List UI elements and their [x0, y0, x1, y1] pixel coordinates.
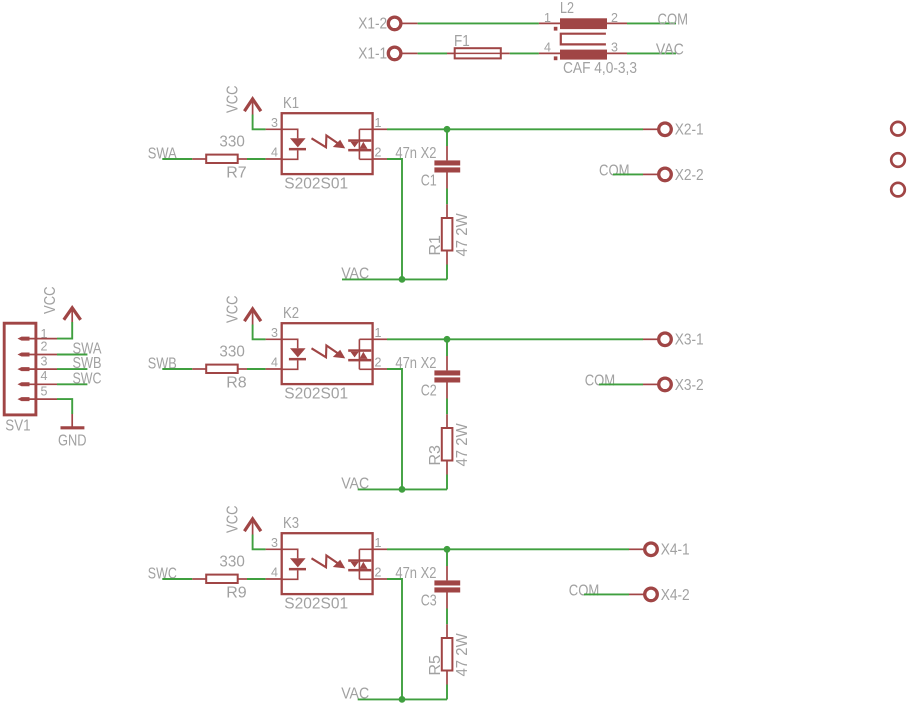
svg-text:4: 4	[41, 369, 48, 383]
SV1 pin 4	[18, 369, 58, 386]
svg-text:2: 2	[375, 566, 382, 580]
svg-text:3: 3	[611, 41, 618, 55]
mounting pad hole 3 (right edge)	[891, 183, 905, 197]
svg-text:VAC: VAC	[341, 686, 369, 703]
net VAC wire (K2 block)	[358, 488, 447, 490]
svg-text:R5: R5	[427, 655, 444, 676]
svg-text:R8: R8	[226, 375, 247, 392]
wire SV1 pin2 net SWA	[57, 354, 87, 356]
svg-text:SWC: SWC	[73, 370, 102, 387]
svg-text:COM: COM	[658, 12, 689, 29]
wire COM to X3-2	[599, 383, 643, 385]
pad X1-2	[358, 16, 417, 33]
svg-text:S202S01: S202S01	[284, 385, 348, 402]
svg-text:VCC: VCC	[224, 86, 241, 114]
junction on VAC	[399, 276, 406, 283]
wire X1-2 to L2 pin1	[418, 22, 539, 24]
svg-text:VCC: VCC	[224, 296, 241, 324]
wire C1 to R1	[446, 189, 448, 205]
capacitor C3 47n X2	[395, 565, 460, 609]
wire F1 to L2 pin4	[510, 52, 539, 54]
net VAC wire (K1 block)	[342, 278, 447, 280]
junction on VAC	[399, 486, 406, 493]
wire SV1 pin3 net SWB	[57, 368, 87, 370]
wire VCC to K2 pin3	[253, 325, 266, 340]
svg-text:330: 330	[219, 344, 244, 361]
svg-text:47 2W: 47 2W	[454, 212, 471, 256]
supply VCC (K1)	[224, 86, 261, 115]
svg-text:47n X2: 47n X2	[395, 565, 436, 582]
svg-text:L2: L2	[560, 0, 574, 17]
resistor R1 47 2W	[427, 204, 471, 264]
svg-text:47 2W: 47 2W	[454, 632, 471, 676]
svg-text:VAC: VAC	[341, 266, 369, 283]
junction at C top (C3)	[444, 546, 451, 553]
svg-text:2: 2	[375, 356, 382, 370]
wire junction down to C3	[446, 549, 448, 566]
pad X3-2	[643, 377, 704, 394]
wire COM to X2-2	[613, 173, 643, 175]
svg-text:330: 330	[219, 134, 244, 151]
svg-text:S202S01: S202S01	[284, 595, 348, 612]
pad X3-1	[643, 332, 704, 349]
wire R1 to VAC	[446, 265, 448, 280]
svg-text:X4-1: X4-1	[661, 542, 690, 559]
svg-text:K2: K2	[283, 305, 299, 322]
svg-text:COM: COM	[569, 582, 600, 599]
wire R3 to VAC	[446, 475, 448, 490]
resistor R3 47 2W	[427, 414, 471, 474]
wire SWC to R9	[162, 578, 192, 580]
svg-text:X2-1: X2-1	[675, 122, 704, 139]
svg-text:COM: COM	[599, 162, 630, 179]
supply VCC (K2)	[224, 296, 261, 325]
supply VCC (SV1)	[42, 287, 80, 323]
svg-text:X4-2: X4-2	[661, 587, 690, 604]
svg-text:COM: COM	[585, 372, 616, 389]
pad X4-1	[629, 542, 690, 559]
wire R7 to K1 pin4	[247, 158, 266, 160]
svg-text:330: 330	[219, 554, 244, 571]
svg-text:5: 5	[41, 384, 48, 398]
svg-text:R3: R3	[427, 445, 444, 466]
pad X2-1	[643, 122, 704, 139]
mounting pad hole 2 (right edge)	[891, 153, 905, 167]
wire SV1 pin4 net SWC	[57, 383, 87, 385]
svg-text:VAC: VAC	[656, 42, 684, 59]
svg-text:S202S01: S202S01	[284, 175, 348, 192]
wire K2 pin2 down to VAC	[387, 369, 402, 489]
wire VCC to K3 pin3	[253, 535, 266, 550]
svg-text:X2-2: X2-2	[675, 167, 704, 184]
net VAC wire (K3 block)	[358, 698, 447, 700]
junction on VAC	[399, 696, 406, 703]
wire R9 to K3 pin4	[247, 578, 266, 580]
wire SWB to R8	[162, 368, 192, 370]
wire K1 pin2 down to VAC	[387, 159, 402, 279]
capacitor C2 47n X2	[395, 355, 460, 399]
pad X1-1	[358, 46, 417, 63]
inductor L2 (CAF 4,0-3,3)	[539, 0, 637, 77]
pad X2-2	[643, 167, 704, 184]
wire VCC to K1 pin3	[253, 115, 266, 130]
SV1 pin 1	[18, 327, 58, 341]
svg-text:GND: GND	[58, 433, 87, 450]
svg-text:C1: C1	[421, 172, 437, 189]
wire K2 pin1 to X3-1	[387, 338, 643, 340]
fuse F1	[447, 33, 510, 58]
svg-text:4: 4	[544, 41, 551, 55]
opto-triac K1 S202S01	[266, 95, 387, 192]
svg-text:C2: C2	[421, 382, 437, 399]
ground GND	[58, 414, 87, 450]
net COM wire from L2 pin2	[627, 22, 676, 24]
wire K3 pin1 to X4-1	[387, 548, 629, 550]
wire SV1 pin5 to GND	[57, 399, 72, 414]
junction at C top (C2)	[444, 336, 451, 343]
SV1 pin 2	[18, 340, 58, 357]
svg-text:4: 4	[271, 566, 278, 580]
mounting pad hole 1 (right edge)	[891, 122, 905, 136]
svg-text:1: 1	[375, 116, 382, 130]
connector SV1 body	[4, 323, 36, 435]
svg-text:X1-2: X1-2	[358, 16, 387, 33]
resistor R9 330	[192, 554, 247, 602]
svg-text:VCC: VCC	[42, 287, 59, 315]
opto-triac K2 S202S01	[266, 305, 387, 402]
SV1 pin 3	[18, 354, 58, 371]
resistor R7 330	[192, 134, 247, 182]
wire junction down to C1	[446, 129, 448, 146]
pad X4-2	[629, 587, 690, 604]
wire K3 pin2 down to VAC	[387, 579, 402, 699]
net VAC wire from L2 pin3	[627, 52, 676, 54]
svg-text:47n X2: 47n X2	[395, 145, 436, 162]
svg-text:R9: R9	[226, 585, 247, 602]
svg-text:X3-1: X3-1	[675, 332, 704, 349]
svg-text:K3: K3	[283, 515, 299, 532]
svg-text:R1: R1	[427, 235, 444, 256]
resistor R8 330	[192, 344, 247, 392]
svg-text:2: 2	[41, 340, 48, 354]
svg-text:1: 1	[375, 326, 382, 340]
svg-text:K1: K1	[283, 95, 299, 112]
svg-text:4: 4	[271, 356, 278, 370]
supply VCC (K3)	[224, 506, 261, 535]
svg-text:C3: C3	[421, 592, 437, 609]
junction at C top (C1)	[444, 126, 451, 133]
svg-text:1: 1	[375, 536, 382, 550]
capacitor C1 47n X2	[395, 145, 460, 189]
svg-text:SV1: SV1	[5, 418, 30, 435]
wire R8 to K2 pin4	[247, 368, 266, 370]
svg-text:VCC: VCC	[224, 506, 241, 534]
wire SWA to R7	[162, 158, 192, 160]
SV1 pin 5	[18, 384, 58, 401]
wire K1 pin1 to X2-1	[387, 128, 643, 130]
wire C2 to R3	[446, 399, 448, 415]
svg-text:3: 3	[271, 536, 278, 550]
wire R5 to VAC	[446, 685, 448, 700]
svg-text:47 2W: 47 2W	[454, 422, 471, 466]
opto-triac K3 S202S01	[266, 515, 387, 612]
wire C3 to R5	[446, 609, 448, 625]
svg-text:2: 2	[375, 146, 382, 160]
wire X1-1 to F1	[418, 52, 447, 54]
svg-text:47n X2: 47n X2	[395, 355, 436, 372]
svg-text:3: 3	[271, 326, 278, 340]
svg-text:3: 3	[271, 116, 278, 130]
wire COM to X4-2	[584, 593, 629, 595]
svg-text:X3-2: X3-2	[675, 377, 704, 394]
svg-text:CAF 4,0-3,3: CAF 4,0-3,3	[563, 60, 637, 77]
wire SV1 pin1 to VCC	[57, 322, 72, 339]
svg-text:4: 4	[271, 146, 278, 160]
svg-text:3: 3	[41, 354, 48, 368]
resistor R5 47 2W	[427, 624, 471, 684]
svg-text:X1-1: X1-1	[358, 46, 387, 63]
svg-text:R7: R7	[226, 165, 247, 182]
wire junction down to C2	[446, 339, 448, 356]
svg-text:VAC: VAC	[341, 476, 369, 493]
